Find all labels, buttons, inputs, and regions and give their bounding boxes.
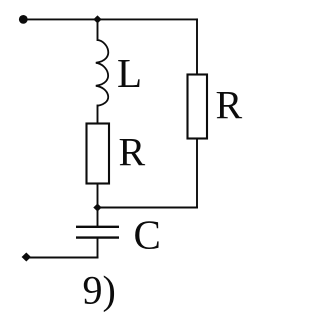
wire capacitor bottom lead xyxy=(97,238,99,258)
terminal dot top-left xyxy=(19,15,28,24)
wire capacitor top lead xyxy=(97,208,99,227)
svg-text:R: R xyxy=(119,130,146,175)
svg-text:C: C xyxy=(134,212,161,258)
wire right vertical lower xyxy=(196,139,198,208)
capacitor C bottom plate xyxy=(76,236,119,238)
svg-text:9): 9) xyxy=(83,268,116,313)
terminal dot bottom-left xyxy=(22,253,31,262)
wire inductor-resistor lead xyxy=(97,106,99,124)
wire bottom left horizontal xyxy=(27,257,98,259)
wire top horizontal xyxy=(23,18,197,20)
wire bottom horizontal (right branch) xyxy=(98,207,198,209)
resistor R (right) xyxy=(188,75,208,139)
junction node top xyxy=(93,15,101,23)
wire inductor top lead xyxy=(97,19,99,40)
resistor R (left) xyxy=(87,124,110,184)
svg-text:R: R xyxy=(216,83,243,128)
wire resistor bottom lead xyxy=(97,184,99,208)
inductor L xyxy=(96,40,108,106)
capacitor C top plate xyxy=(76,226,119,228)
svg-text:L: L xyxy=(117,50,142,96)
wire right vertical upper xyxy=(196,19,198,74)
junction node bottom xyxy=(93,204,101,212)
